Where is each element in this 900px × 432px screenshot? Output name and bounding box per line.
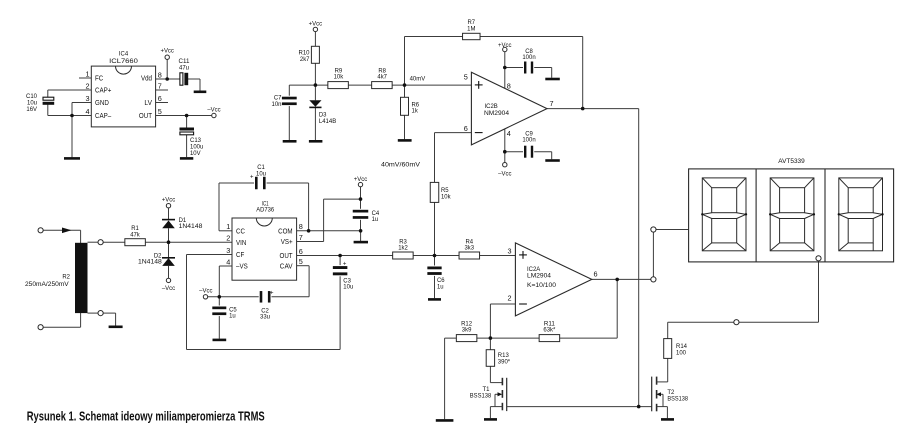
svg-text:1N4148: 1N4148 [179,223,203,230]
svg-text:3: 3 [507,246,511,255]
svg-text:4: 4 [507,129,511,138]
svg-text:1u: 1u [229,313,236,320]
svg-text:10n: 10n [272,101,282,108]
svg-text:+: + [250,174,254,180]
svg-text:+Vcc: +Vcc [498,42,512,49]
svg-text:CC: CC [236,226,245,235]
svg-text:40mV: 40mV [410,76,426,83]
svg-text:OUT: OUT [139,111,153,120]
svg-text:1M: 1M [467,26,475,33]
svg-text:4: 4 [226,258,230,267]
svg-text:Rysunek 1. Schemat ideowy mili: Rysunek 1. Schemat ideowy miliamperomier… [27,408,265,423]
svg-text:5: 5 [464,72,468,81]
svg-text:–Vcc: –Vcc [162,285,176,292]
svg-text:1k: 1k [412,108,419,115]
svg-text:10u: 10u [343,284,353,291]
svg-text:+Vcc: +Vcc [162,196,176,203]
svg-text:OUT: OUT [280,251,294,260]
svg-text:16V: 16V [26,106,37,113]
svg-text:CAP+: CAP+ [95,86,111,95]
svg-text:10u: 10u [256,170,266,177]
svg-text:8: 8 [299,222,303,231]
svg-text:63k*: 63k* [543,327,555,334]
svg-text:7: 7 [299,233,303,242]
svg-text:–Vcc: –Vcc [498,170,512,177]
svg-text:5: 5 [158,107,162,116]
svg-text:4k7: 4k7 [377,74,387,81]
svg-text:K=10/100: K=10/100 [527,282,556,289]
svg-text:L414B: L414B [319,118,336,125]
svg-text:250mA/250mV: 250mA/250mV [25,281,69,288]
svg-text:COM: COM [278,226,293,235]
svg-text:1: 1 [226,222,230,231]
svg-text:10V: 10V [190,150,201,157]
svg-text:LV: LV [144,98,152,107]
svg-text:47u: 47u [179,65,189,72]
svg-text:VS+: VS+ [281,237,293,246]
svg-text:IC4: IC4 [119,50,129,57]
svg-text:CAV: CAV [280,261,293,270]
svg-text:5: 5 [299,257,303,266]
svg-text:2k7: 2k7 [300,56,310,63]
svg-text:3k3: 3k3 [465,245,475,252]
svg-text:VIN: VIN [236,238,246,247]
svg-text:–Vcc: –Vcc [199,287,213,294]
svg-text:8: 8 [158,71,162,80]
svg-text:390*: 390* [498,358,511,365]
svg-text:6: 6 [299,247,303,256]
svg-text:3: 3 [226,246,230,255]
svg-text:1u: 1u [437,283,444,290]
svg-text:6: 6 [464,124,468,133]
svg-text:2: 2 [226,234,230,243]
svg-text:10k: 10k [441,193,451,200]
svg-text:7: 7 [158,82,162,91]
svg-text:1: 1 [85,70,89,79]
svg-text:1N4148: 1N4148 [138,258,162,265]
svg-text:+: + [270,291,274,297]
svg-text:R2: R2 [62,274,70,281]
svg-text:Vdd: Vdd [141,74,152,83]
svg-text:40mV/60mV: 40mV/60mV [381,161,421,168]
svg-text:100n: 100n [522,137,536,144]
svg-text:NM2904: NM2904 [484,110,509,117]
svg-text:GND: GND [95,98,109,107]
svg-text:7: 7 [550,99,554,108]
svg-text:4: 4 [85,107,89,116]
svg-text:+Vcc: +Vcc [160,47,174,54]
svg-text:6: 6 [594,270,598,279]
svg-text:47k: 47k [130,231,140,238]
svg-text:3k9: 3k9 [462,327,472,334]
svg-text:100n: 100n [522,54,536,61]
svg-text:+Vcc: +Vcc [354,176,368,183]
svg-text:AVT5339: AVT5339 [778,158,805,165]
svg-text:CAP–: CAP– [95,111,112,120]
svg-text:33u: 33u [260,314,270,321]
svg-text:1k2: 1k2 [398,245,408,252]
svg-text:+: + [343,261,347,267]
svg-text:10k: 10k [334,74,344,81]
svg-text:100: 100 [676,349,686,356]
svg-text:2: 2 [85,82,89,91]
svg-text:–VS: –VS [236,262,248,271]
svg-text:8: 8 [507,81,511,90]
svg-text:BSS138: BSS138 [667,395,688,402]
svg-text:CF: CF [236,250,245,259]
svg-text:AD736: AD736 [256,207,274,214]
svg-text:LM2904: LM2904 [527,272,551,279]
svg-text:–Vcc: –Vcc [207,106,221,113]
svg-text:3: 3 [85,94,89,103]
svg-text:1u: 1u [372,216,379,223]
svg-text:FC: FC [95,74,103,83]
svg-text:ICL7660: ICL7660 [109,58,138,65]
svg-text:6: 6 [158,94,162,103]
svg-text:BSS138: BSS138 [470,392,492,399]
svg-text:+Vcc: +Vcc [309,20,323,27]
svg-text:2: 2 [507,294,511,303]
